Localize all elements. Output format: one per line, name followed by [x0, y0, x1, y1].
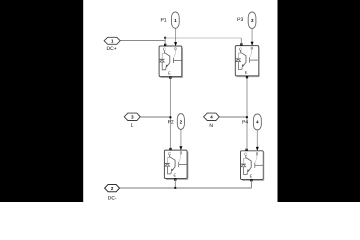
IGBT U1 (top-left) — [159, 42, 183, 79]
port DC- (connection port 2) — [105, 185, 120, 192]
node DC- junction — [174, 187, 176, 189]
wire DC+ riser to C of U1 — [164, 38, 166, 44]
wire P2 gate signal — [180, 129, 182, 147]
left letterbox bar — [0, 0, 83, 202]
wire DC+ drop to C of U2 — [240, 38, 242, 44]
inport P3 — [248, 12, 256, 29]
svg-text:P1: P1 — [160, 17, 166, 23]
wire L lead — [140, 116, 170, 118]
node N junction — [246, 116, 248, 118]
svg-text:DC+: DC+ — [107, 46, 117, 52]
wire left midpoint (U1 E to U3 C) — [169, 79, 171, 148]
port L (connection port 3) — [124, 113, 140, 120]
svg-text:DC-: DC- — [108, 195, 117, 201]
wire right midpoint (U2 E to U4 C) — [246, 78, 248, 147]
svg-text:P2: P2 — [168, 120, 174, 126]
wire P4 gate signal — [256, 130, 258, 148]
wire DC+ lead — [120, 40, 165, 42]
svg-text:P3: P3 — [237, 17, 243, 23]
inport P4 — [253, 114, 261, 130]
wire U3 E stub — [174, 181, 176, 188]
svg-text:E: E — [168, 71, 171, 76]
port N (connection port 4) — [204, 113, 220, 120]
svg-text:L: L — [131, 123, 134, 129]
wire P1 gate signal — [175, 28, 177, 43]
wire DC- rail — [120, 187, 252, 189]
svg-text:P4: P4 — [242, 120, 248, 126]
svg-text:E: E — [245, 70, 248, 75]
node DC+ junction — [164, 37, 166, 39]
inport P1 — [172, 12, 180, 28]
port DC+ (connection port 1) — [104, 37, 120, 44]
right letterbox bar — [278, 0, 360, 202]
svg-text:E: E — [250, 173, 253, 178]
wire P3 gate signal — [251, 28, 253, 43]
svg-text:E: E — [173, 172, 176, 177]
wire U4 E riser — [250, 182, 252, 188]
IGBT U2 (top-right) — [235, 42, 259, 79]
node L junction — [169, 116, 171, 118]
IGBT U3 (bottom-left) — [164, 146, 188, 180]
inport P2 — [177, 114, 184, 130]
svg-text:N: N — [209, 123, 213, 129]
wire N lead — [219, 116, 247, 118]
wire DC+ top rail — [165, 37, 241, 39]
IGBT U4 (bottom-right) — [241, 147, 264, 182]
